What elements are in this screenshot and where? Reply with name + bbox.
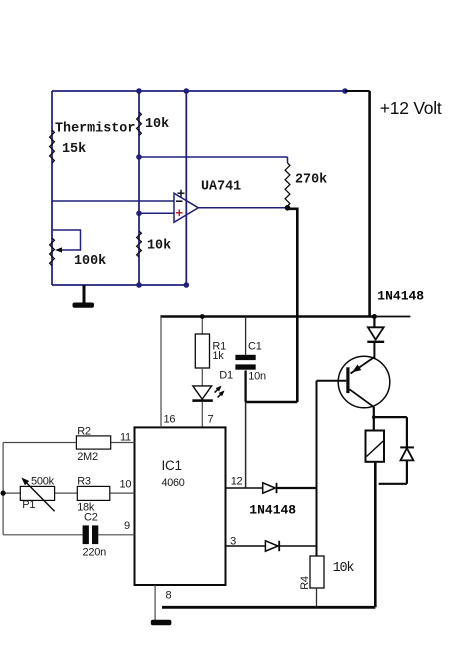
svg-text:9: 9 [124, 520, 130, 532]
svg-text:Thermistor: Thermistor [55, 122, 135, 137]
svg-text:P1: P1 [22, 499, 35, 511]
svg-text:1k: 1k [212, 350, 224, 362]
svg-text:100k: 100k [74, 254, 106, 269]
svg-text:UA741: UA741 [201, 180, 241, 195]
svg-text:7: 7 [208, 414, 214, 426]
svg-text:1N4148: 1N4148 [249, 502, 296, 517]
svg-text:+12 Volt: +12 Volt [380, 98, 442, 118]
svg-text:10: 10 [120, 478, 132, 490]
svg-text:220n: 220n [83, 547, 107, 559]
svg-text:R4: R4 [299, 576, 311, 590]
svg-text:10n: 10n [248, 370, 266, 382]
svg-text:C2: C2 [84, 512, 98, 524]
svg-text:12: 12 [231, 476, 243, 488]
svg-text:16: 16 [164, 414, 176, 426]
svg-text:10k: 10k [333, 561, 355, 576]
svg-text:270k: 270k [295, 173, 327, 188]
svg-text:10k: 10k [145, 117, 169, 132]
svg-text:4060: 4060 [162, 477, 185, 489]
svg-text:C1: C1 [248, 340, 262, 352]
svg-text:R2: R2 [77, 426, 91, 438]
svg-text:R3: R3 [77, 475, 91, 487]
svg-text:500k: 500k [31, 475, 55, 487]
svg-text:D1: D1 [219, 369, 233, 381]
svg-text:8: 8 [166, 590, 172, 602]
svg-text:IC1: IC1 [162, 458, 182, 473]
svg-text:1N4148: 1N4148 [377, 289, 424, 304]
svg-text:10k: 10k [147, 239, 171, 254]
svg-text:2M2: 2M2 [77, 451, 98, 463]
svg-text:15k: 15k [62, 142, 86, 157]
